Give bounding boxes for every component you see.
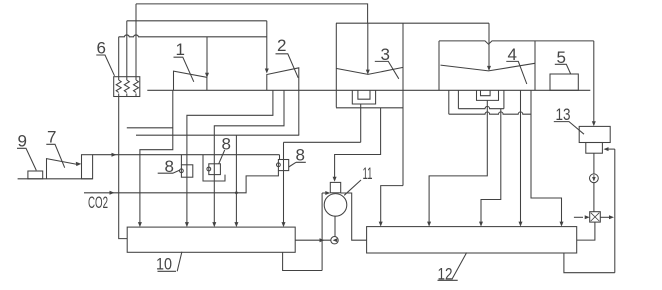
- svg-text:10: 10: [156, 255, 172, 274]
- svg-text:CO2: CO2: [88, 193, 108, 212]
- svg-text:6: 6: [97, 39, 106, 58]
- svg-text:1: 1: [176, 40, 185, 59]
- svg-text:2: 2: [277, 36, 286, 55]
- svg-text:11: 11: [363, 164, 373, 183]
- svg-text:3: 3: [381, 45, 390, 64]
- svg-text:8: 8: [222, 135, 231, 154]
- svg-text:8: 8: [296, 146, 305, 165]
- svg-text:5: 5: [557, 48, 566, 67]
- svg-text:9: 9: [18, 132, 27, 151]
- svg-text:12: 12: [438, 265, 453, 284]
- svg-text:13: 13: [556, 105, 571, 124]
- svg-text:4: 4: [508, 45, 517, 64]
- svg-text:8: 8: [165, 157, 174, 176]
- svg-text:7: 7: [47, 128, 56, 147]
